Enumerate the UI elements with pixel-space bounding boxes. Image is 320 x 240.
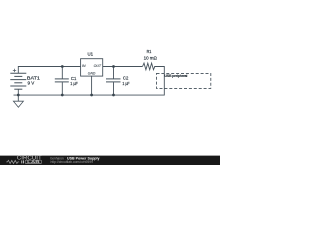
svg-text:1 µF: 1 µF xyxy=(70,81,78,87)
svg-text:U1: U1 xyxy=(88,52,94,58)
svg-text:9 V: 9 V xyxy=(28,81,35,86)
svg-text:IN: IN xyxy=(82,64,86,68)
svg-text:htlp://circuitlab.com/cvh9599: htlp://circuitlab.com/cvh9599 xyxy=(51,160,94,164)
svg-text:C2: C2 xyxy=(123,75,129,81)
svg-text:LAB: LAB xyxy=(27,160,41,164)
svg-text:USB peripheral: USB peripheral xyxy=(164,74,187,78)
svg-text:R1: R1 xyxy=(147,49,152,54)
svg-text:1 µF: 1 µF xyxy=(122,81,129,87)
svg-text:GND: GND xyxy=(88,72,96,76)
svg-text:10 mΩ: 10 mΩ xyxy=(144,56,158,62)
svg-text:C1: C1 xyxy=(71,76,77,82)
svg-text:OUT: OUT xyxy=(94,64,102,68)
